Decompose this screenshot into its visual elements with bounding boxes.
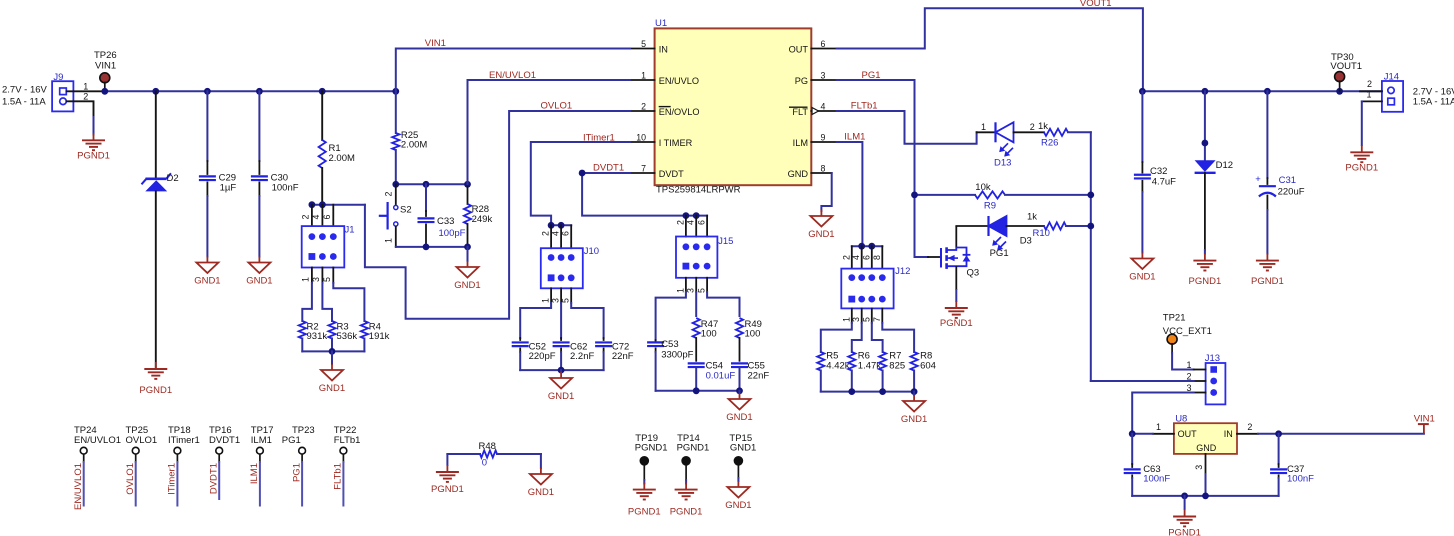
- wire TP22 stem: [342, 454, 344, 462]
- svg-text:PG1: PG1: [282, 435, 301, 446]
- svg-text:2: 2: [1367, 79, 1372, 89]
- U8 pin3 stub: [1205, 454, 1207, 474]
- wire VIN bus: [105, 90, 396, 92]
- ground PGND1 (Q3): [955, 301, 957, 308]
- wire J12 pin8 lead: [881, 246, 883, 268]
- svg-text:U1: U1: [655, 18, 667, 29]
- svg-text:VIN1: VIN1: [425, 38, 446, 49]
- svg-text:PG1: PG1: [291, 463, 302, 482]
- ground PGND1 (TP19): [643, 483, 645, 490]
- resistor R9: [915, 191, 1091, 198]
- wire J14 pin2 stub: [1360, 90, 1382, 92]
- wire J12 pin3 to R6: [852, 323, 862, 352]
- ground GND1 (C32): [1141, 253, 1143, 259]
- wire U8 bottom rail: [1132, 495, 1278, 497]
- resistor R48: [447, 450, 541, 457]
- wire VOUT bus: [1143, 90, 1382, 92]
- svg-text:ILM1: ILM1: [251, 435, 272, 446]
- svg-text:GND1: GND1: [725, 500, 751, 511]
- resistor R28: [464, 184, 471, 247]
- svg-text:J1: J1: [345, 225, 355, 236]
- svg-text:J9: J9: [53, 72, 63, 83]
- svg-text:8: 8: [821, 164, 826, 174]
- svg-text:PGND1: PGND1: [940, 318, 973, 329]
- testpoint TP14: [681, 456, 691, 466]
- wire TP21 stem: [1171, 344, 1173, 353]
- resistor R3: [328, 321, 335, 351]
- svg-text:22nF: 22nF: [748, 371, 770, 382]
- connector J1: [302, 226, 345, 267]
- pin 4 stub (FLT): [811, 110, 836, 112]
- ground GND1 (R48): [540, 468, 542, 474]
- wire J15 pin2 lead: [685, 216, 687, 237]
- resistor R8: [911, 352, 918, 392]
- svg-text:DVDT1: DVDT1: [593, 163, 624, 174]
- wire R48 left down: [446, 454, 448, 465]
- svg-text:J15: J15: [718, 236, 733, 247]
- ground GND1 (R28): [467, 261, 469, 267]
- junction J10 pin4: [558, 222, 565, 229]
- svg-text:4: 4: [311, 215, 321, 220]
- svg-text:VOUT1: VOUT1: [1330, 61, 1362, 72]
- svg-text:2: 2: [641, 102, 646, 112]
- svg-text:5: 5: [641, 39, 646, 49]
- svg-text:PGND1: PGND1: [635, 443, 668, 454]
- wire ITimer1 net: [531, 142, 630, 225]
- junction R28 bottom: [464, 244, 471, 251]
- wire DVDT1 net: [582, 173, 707, 216]
- svg-text:536k: 536k: [337, 331, 358, 342]
- connector J12: [841, 269, 893, 309]
- diode D3 (LED PG1): [989, 216, 1045, 250]
- svg-text:VOUT1: VOUT1: [1080, 0, 1112, 9]
- svg-text:1µF: 1µF: [220, 183, 237, 194]
- wire J10 pin2 lead: [550, 225, 552, 248]
- capacitor C33: [418, 184, 435, 247]
- junction DVDT1: [579, 170, 586, 177]
- svg-text:1k: 1k: [1027, 211, 1037, 222]
- op-amp U1 body (TPS259814LRPWR): [655, 28, 812, 185]
- wire J9 pin1 to VIN bus: [67, 90, 105, 92]
- svg-text:PGND1: PGND1: [1189, 276, 1222, 287]
- wire C52-C72 bottom rail: [520, 369, 603, 371]
- junction C55 bottom: [736, 387, 743, 394]
- svg-text:C32: C32: [1150, 166, 1167, 177]
- svg-text:1: 1: [300, 277, 310, 282]
- junction TP30/bus: [1336, 88, 1343, 95]
- svg-text:+: +: [1255, 174, 1261, 185]
- svg-text:3: 3: [686, 288, 696, 293]
- svg-text:PG: PG: [795, 76, 808, 86]
- svg-text:4.7uF: 4.7uF: [1152, 177, 1176, 188]
- svg-text:10k: 10k: [975, 182, 991, 193]
- wire TP17 stem: [259, 454, 261, 462]
- junction R8 bottom: [911, 388, 918, 395]
- svg-text:220pF: 220pF: [529, 351, 556, 362]
- ground PGND1 (D12): [1204, 254, 1206, 261]
- wire J15 pin6 lead: [706, 216, 708, 237]
- svg-text:220uF: 220uF: [1278, 187, 1305, 198]
- svg-text:7: 7: [641, 164, 646, 174]
- svg-text:1: 1: [383, 238, 393, 243]
- svg-text:1.5A - 11A: 1.5A - 11A: [1413, 97, 1454, 108]
- pin 3 stub (PG): [811, 79, 836, 81]
- connector J14: [1382, 81, 1403, 112]
- ground PGND1 (J14): [1361, 145, 1363, 152]
- wire TP19 stem: [643, 466, 645, 481]
- capacitor C54: [688, 363, 705, 390]
- junction C31/bus: [1264, 88, 1271, 95]
- wire J1 pin2 lead: [311, 205, 313, 226]
- svg-text:VIN1: VIN1: [95, 61, 116, 72]
- wire U8 IN to VIN1: [1258, 433, 1424, 435]
- svg-text:2: 2: [541, 231, 551, 236]
- wire OUT to VOUT1 bus: [837, 8, 1143, 91]
- wire J12 pin7 lead: [881, 308, 883, 323]
- diode D13 (LED): [977, 122, 1044, 156]
- wire TP15 stem: [737, 466, 739, 479]
- testpoint TP16: [216, 447, 223, 454]
- svg-text:2.7V - 16V: 2.7V - 16V: [2, 85, 48, 96]
- junction C37 top: [1275, 430, 1282, 437]
- svg-text:6: 6: [561, 231, 571, 236]
- svg-text:GND1: GND1: [548, 391, 574, 402]
- svg-text:4: 4: [821, 102, 826, 112]
- svg-text:0: 0: [482, 458, 487, 469]
- svg-text:GND1: GND1: [246, 275, 272, 286]
- svg-text:PGND1: PGND1: [77, 151, 110, 162]
- ground GND1 (R2R3R4): [331, 364, 333, 370]
- wire J13 pin3 to OUT node: [1132, 393, 1194, 434]
- wire OUT node: [1132, 433, 1153, 435]
- svg-text:OVLO1: OVLO1: [541, 101, 573, 112]
- svg-text:J13: J13: [1205, 353, 1220, 364]
- capacitor C62: [553, 338, 570, 370]
- junction C32/bus: [1139, 88, 1146, 95]
- wire J12 pin3 lead: [861, 308, 863, 323]
- wire J15 pin3 lead: [695, 278, 697, 292]
- svg-text:D12: D12: [1216, 160, 1233, 171]
- svg-text:GND1: GND1: [454, 280, 480, 291]
- junction C33 top: [423, 181, 430, 188]
- svg-text:GND1: GND1: [319, 383, 345, 394]
- svg-text:6: 6: [322, 215, 332, 220]
- wire J9 pin2 to PGND1: [67, 101, 94, 117]
- svg-text:3: 3: [1194, 465, 1204, 470]
- junction C33 bottom: [423, 244, 430, 251]
- capacitor C72: [595, 338, 612, 370]
- svg-text:5: 5: [697, 288, 707, 293]
- wire J1 pin1 lead: [311, 268, 313, 284]
- svg-text:1.47k: 1.47k: [858, 361, 881, 372]
- connector J15: [676, 237, 717, 278]
- svg-text:1: 1: [841, 317, 851, 322]
- svg-text:2: 2: [83, 92, 88, 102]
- svg-text:249k: 249k: [472, 214, 493, 225]
- wire ILM1 net to J12: [837, 142, 863, 246]
- ground GND1 (C30): [258, 257, 260, 263]
- wire GND pin8 to GND1: [821, 173, 831, 211]
- svg-text:J12: J12: [895, 266, 910, 277]
- svg-text:PGND1: PGND1: [1251, 276, 1284, 287]
- wire J13 pin3 stub: [1194, 392, 1206, 394]
- overline FLT: [789, 106, 808, 108]
- capacitor C63: [1124, 434, 1141, 496]
- ground GND1 (J10 caps): [560, 372, 562, 378]
- junction R9 right / rail: [1087, 192, 1094, 199]
- junction R6 bottom: [848, 388, 855, 395]
- svg-text:DVDT1: DVDT1: [209, 435, 240, 446]
- svg-text:2.2nF: 2.2nF: [570, 351, 594, 362]
- svg-text:4: 4: [851, 255, 861, 260]
- junction J15 pin4: [693, 212, 700, 219]
- svg-text:PG1: PG1: [990, 248, 1009, 259]
- wire VIN1 to IN pin: [396, 49, 630, 92]
- svg-text:DVDT: DVDT: [659, 169, 684, 179]
- wire J10 pin3 lead: [560, 288, 562, 303]
- testpoint TP24: [80, 447, 87, 454]
- wire TP18 stem: [176, 454, 178, 462]
- resistor R4: [361, 321, 368, 351]
- pin 2 stub (EN/OVLO): [630, 110, 655, 112]
- svg-text:PGND1: PGND1: [628, 507, 661, 518]
- pin 7 stub (DVDT): [630, 172, 655, 174]
- wire J10 tie rail: [551, 224, 571, 226]
- junction J1 pin2 tie: [309, 201, 316, 208]
- svg-text:U8: U8: [1175, 414, 1187, 425]
- resistor R2: [299, 321, 306, 351]
- wire J10 pin6 lead: [570, 225, 572, 248]
- wire TP21 to J13 pin1: [1172, 353, 1194, 370]
- svg-text:TP26: TP26: [94, 50, 117, 61]
- diode D2 (TVS): [142, 91, 172, 368]
- ground PGND1 (D2): [155, 362, 157, 369]
- svg-text:C53: C53: [661, 339, 678, 350]
- testpoint TP18: [174, 447, 181, 454]
- svg-text:2: 2: [1030, 122, 1035, 132]
- svg-text:S2: S2: [400, 205, 412, 216]
- wire U8 GND to rail: [1205, 474, 1207, 496]
- wire pull-up rail: [1090, 132, 1092, 381]
- svg-text:22nF: 22nF: [612, 351, 634, 362]
- junction C30/bus: [256, 88, 263, 95]
- svg-text:1: 1: [1156, 422, 1161, 432]
- wire J12 pin5 to R7: [872, 323, 883, 352]
- svg-text:GND1: GND1: [730, 443, 756, 454]
- resistor R1: [319, 91, 326, 204]
- wire PG1 net to Q3 gate: [837, 80, 928, 257]
- wire J10 pin5 to C72: [571, 303, 603, 338]
- svg-text:ILM1: ILM1: [844, 132, 865, 143]
- svg-text:OUT: OUT: [789, 45, 809, 55]
- wire TP26 stem: [104, 82, 106, 90]
- wire to GND1: [467, 247, 469, 261]
- svg-text:R9: R9: [984, 201, 996, 212]
- svg-text:EN/UVLO: EN/UVLO: [659, 76, 699, 86]
- overline EN (EN/OVLO): [659, 106, 671, 108]
- wire TP24 stem: [83, 454, 85, 462]
- wire J12 pin1 to R5: [821, 323, 852, 352]
- wire R5-R8 bottom rail: [821, 391, 914, 393]
- svg-text:2.00M: 2.00M: [329, 153, 355, 164]
- svg-text:9: 9: [821, 133, 826, 143]
- svg-text:931k: 931k: [307, 331, 328, 342]
- wire Q3 source to PGND1: [955, 290, 957, 301]
- junction C62 bottom: [558, 367, 565, 374]
- svg-text:0.01uF: 0.01uF: [706, 371, 736, 382]
- ground PGND1 (TP14): [685, 483, 687, 490]
- svg-text:GND1: GND1: [1129, 271, 1155, 282]
- wire J1 pin3 lead: [321, 268, 323, 284]
- junction R10 right / rail: [1087, 223, 1094, 230]
- FLT open-drain marker: [812, 108, 819, 115]
- svg-text:604: 604: [920, 361, 936, 372]
- capacitor C29: [199, 91, 216, 256]
- wire J10 pin4 lead: [560, 225, 562, 248]
- svg-text:GND: GND: [788, 169, 809, 179]
- svg-text:R48: R48: [479, 441, 496, 452]
- svg-text:J10: J10: [584, 246, 599, 257]
- wire J13 pin1 stub: [1194, 369, 1206, 371]
- wire J10 pin3 to C62: [560, 303, 562, 338]
- junction D2/bus: [152, 88, 159, 95]
- svg-text:TP21: TP21: [1163, 313, 1186, 324]
- wire J15 pin4 lead: [695, 216, 697, 237]
- connector J13: [1206, 363, 1226, 404]
- testpoint TP25: [132, 447, 139, 454]
- svg-text:GND: GND: [1196, 443, 1217, 453]
- wire J12 pin1 lead: [851, 308, 853, 323]
- svg-text:R26: R26: [1041, 138, 1058, 149]
- wire to GND1: [739, 391, 741, 393]
- svg-text:2.00M: 2.00M: [401, 140, 427, 151]
- wire J12 pin4 lead: [861, 246, 863, 268]
- wire TP16 stem: [218, 454, 220, 462]
- wire to GND1: [331, 351, 333, 364]
- wire J1 pin3 to R3: [322, 283, 332, 321]
- svg-text:3: 3: [821, 71, 826, 81]
- testpoint TP17: [257, 447, 264, 454]
- connector J10: [541, 248, 583, 288]
- junction PGND1 rail: [1181, 493, 1188, 500]
- svg-text:GND1: GND1: [726, 412, 752, 423]
- testpoint TP22: [340, 447, 347, 454]
- wire OVLO1 net: [365, 111, 630, 319]
- junction R9 left / PG net: [911, 192, 918, 199]
- svg-text:EN/UVLO1: EN/UVLO1: [74, 435, 121, 446]
- testpoint TP21: [1167, 334, 1177, 344]
- svg-text:I TIMER: I TIMER: [659, 138, 693, 148]
- transistor Q3 (NMOS): [941, 226, 970, 290]
- svg-text:2: 2: [675, 220, 685, 225]
- wire J10 pin1 to C52: [520, 303, 551, 338]
- U8 pin2 stub: [1237, 433, 1258, 435]
- ground GND1 (U1 pin8): [820, 210, 822, 216]
- testpoint TP19: [640, 456, 650, 466]
- capacitor C52: [512, 338, 529, 370]
- svg-text:10: 10: [636, 133, 646, 143]
- svg-text:4.42k: 4.42k: [826, 361, 849, 372]
- svg-text:PGND1: PGND1: [431, 484, 464, 495]
- wire J12 pin2 lead: [851, 246, 853, 268]
- wire J15 pin3 to R47: [695, 292, 697, 316]
- svg-text:ILM: ILM: [793, 138, 808, 148]
- wire to GND1: [560, 370, 562, 372]
- junction J12 pin4: [858, 243, 865, 250]
- wire J1 top tie rail: [312, 204, 365, 206]
- power port VIN1: [1418, 424, 1429, 434]
- svg-text:191k: 191k: [369, 331, 390, 342]
- wire R2-R4 bottom rail: [302, 350, 364, 352]
- pin 9 stub (ILM): [811, 141, 836, 143]
- resistor R10: [1044, 222, 1091, 229]
- testpoint TP23: [299, 447, 306, 454]
- svg-text:FLTb1: FLTb1: [333, 463, 344, 490]
- svg-text:1: 1: [1186, 360, 1191, 370]
- junction TP26/bus: [101, 88, 108, 95]
- svg-text:GND1: GND1: [808, 229, 834, 240]
- ground PGND1 (C31): [1266, 254, 1268, 261]
- svg-text:PGND1: PGND1: [139, 385, 172, 396]
- junction J15 pin2: [683, 212, 690, 219]
- svg-text:ITimer1: ITimer1: [583, 133, 615, 144]
- svg-text:8: 8: [872, 255, 882, 260]
- svg-text:4: 4: [686, 220, 696, 225]
- svg-text:2: 2: [841, 255, 851, 260]
- wire J1 pin1 to R2: [302, 283, 312, 321]
- junction J10 pin2: [548, 222, 555, 229]
- wire J14 pin1 stub: [1362, 100, 1382, 102]
- junction C54 bottom: [693, 387, 700, 394]
- svg-text:3300pF: 3300pF: [661, 350, 693, 361]
- svg-text:C33: C33: [437, 216, 454, 227]
- svg-text:6: 6: [821, 39, 826, 49]
- junction J12 pin6: [868, 243, 875, 250]
- ground GND1 (R5-R8): [913, 395, 915, 401]
- wire J12 tie rail: [852, 245, 883, 247]
- wire TP14 stem: [685, 466, 687, 481]
- wire Q3 drain to D3 cathode: [956, 225, 988, 227]
- wire J10 pin5 lead: [570, 288, 572, 303]
- capacitor C37: [1270, 434, 1287, 496]
- svg-text:EN/UVLO1: EN/UVLO1: [489, 70, 536, 81]
- junction R25/bus: [392, 88, 399, 95]
- svg-text:100pF: 100pF: [439, 228, 466, 239]
- junction D12/bus: [1202, 88, 1209, 95]
- pin 10 stub (I TIMER): [630, 141, 655, 143]
- testpoint TP30: [1335, 72, 1345, 82]
- svg-text:PGND1: PGND1: [670, 507, 703, 518]
- svg-text:5: 5: [561, 298, 571, 303]
- junction R28 top: [464, 181, 471, 188]
- svg-text:825: 825: [889, 361, 905, 372]
- wire C53-C55 bottom rail: [656, 390, 740, 392]
- svg-text:1: 1: [641, 71, 646, 81]
- svg-text:D13: D13: [994, 158, 1011, 169]
- svg-text:OVLO1: OVLO1: [126, 435, 158, 446]
- wire EN/UVLO1 net: [468, 80, 631, 184]
- junction R3 bottom: [329, 348, 336, 355]
- wire: [93, 117, 95, 135]
- svg-text:R10: R10: [1033, 228, 1050, 239]
- svg-text:PG1: PG1: [862, 70, 881, 81]
- svg-text:1: 1: [83, 81, 88, 91]
- svg-text:5: 5: [861, 317, 871, 322]
- junction R7 bottom: [879, 388, 886, 395]
- testpoint TP15: [734, 456, 744, 466]
- wire J13 pin2 to pull-up rail: [1091, 380, 1194, 382]
- svg-text:PGND1: PGND1: [677, 443, 710, 454]
